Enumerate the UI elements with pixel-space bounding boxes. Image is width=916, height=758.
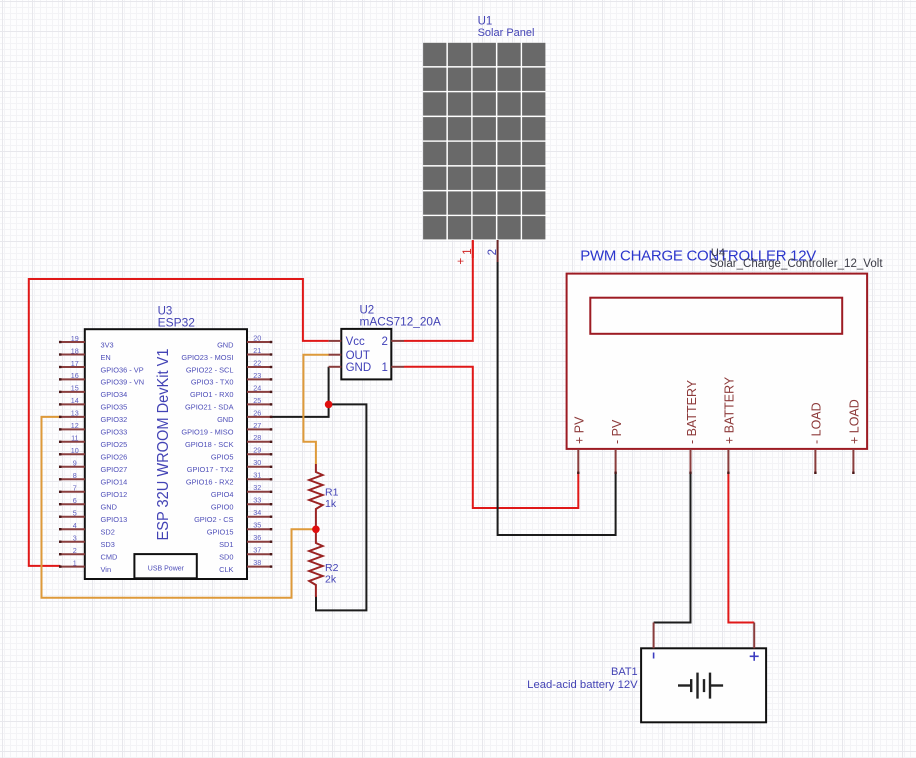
svg-text:GPIO18 - SCK: GPIO18 - SCK xyxy=(185,440,234,449)
svg-text:GPIO21 - SDA: GPIO21 - SDA xyxy=(185,403,234,412)
ESP32 pin 10 stub (GPIO26) xyxy=(59,446,127,462)
svg-text:31: 31 xyxy=(253,471,261,480)
svg-text:10: 10 xyxy=(71,446,79,455)
svg-text:7: 7 xyxy=(73,484,77,493)
svg-text:GPIO39 - VN: GPIO39 - VN xyxy=(101,378,145,387)
svg-text:GPIO2 - CS: GPIO2 - CS xyxy=(194,515,233,524)
svg-text:Vcc: Vcc xyxy=(346,336,365,348)
svg-text:CMD: CMD xyxy=(101,553,118,562)
charge controller U4 body xyxy=(567,274,868,449)
charge controller display rectangle xyxy=(590,298,842,334)
ESP32 pin 32 stub (GPIO4) xyxy=(211,483,272,499)
svg-text:U1: U1 xyxy=(478,16,493,28)
battery plus terminal mark xyxy=(750,652,759,661)
svg-text:32: 32 xyxy=(253,483,261,492)
svg-text:SD3: SD3 xyxy=(101,540,115,549)
svg-text:8: 8 xyxy=(73,471,77,480)
svg-text:1: 1 xyxy=(73,558,77,567)
controller pin stub tips xyxy=(578,472,853,474)
svg-text:GPIO13: GPIO13 xyxy=(101,515,128,524)
svg-text:21: 21 xyxy=(253,346,261,355)
ESP32 pin 26 stub (GND) xyxy=(217,408,272,424)
svg-text:18: 18 xyxy=(71,346,79,355)
svg-text:+ BATTERY: + BATTERY xyxy=(723,376,737,444)
ESP32 pin 7 stub (GPIO12) xyxy=(59,484,127,500)
controller pin stub -PV xyxy=(615,449,617,474)
ESP32 pin 5 stub (GPIO13) xyxy=(59,509,127,525)
ESP32 pin 15 stub (GPIO34) xyxy=(59,384,127,400)
ESP32 pin 12 stub (GPIO33) xyxy=(59,421,127,437)
ESP32 pin 35 stub (GPIO15) xyxy=(207,521,272,537)
svg-text:20: 20 xyxy=(253,333,261,342)
svg-text:GPIO5: GPIO5 xyxy=(211,453,234,462)
svg-text:USB Power: USB Power xyxy=(148,566,185,573)
svg-text:1: 1 xyxy=(462,248,474,254)
junction node U2-GND / ESP pin26 / R2 xyxy=(325,401,333,409)
wire black: junction to R2 bottom xyxy=(316,404,366,610)
svg-text:15: 15 xyxy=(71,384,79,393)
ESP32 pin 17 stub (GPIO36 - VP) xyxy=(59,359,144,375)
svg-text:GND: GND xyxy=(101,503,117,512)
battery cell symbol xyxy=(678,673,723,699)
U2 pin stub OUT xyxy=(329,354,342,356)
svg-text:6: 6 xyxy=(73,496,77,505)
svg-text:3: 3 xyxy=(73,534,77,543)
svg-text:36: 36 xyxy=(253,533,261,542)
svg-text:+: + xyxy=(456,258,468,265)
svg-text:1: 1 xyxy=(381,362,387,374)
battery pin stub plus xyxy=(753,623,755,649)
svg-text:16: 16 xyxy=(71,371,79,380)
USB Power box xyxy=(134,554,196,578)
svg-text:SD1: SD1 xyxy=(219,540,233,549)
battery pin stub minus xyxy=(653,623,655,649)
svg-text:19: 19 xyxy=(71,334,79,343)
battery BAT1 body xyxy=(641,648,766,722)
wire orange: ESP GPIO32 pin13 to R1-R2 junction xyxy=(42,417,316,598)
ESP32 pin 36 stub (SD1) xyxy=(219,533,272,549)
svg-text:GPIO36 - VP: GPIO36 - VP xyxy=(101,365,144,374)
ESP32 pin 34 stub (GPIO2 - CS) xyxy=(194,508,272,524)
resistor R2 xyxy=(309,529,322,597)
wire black: U2 GND down to junction then ESP pin26 xyxy=(272,367,329,417)
svg-text:+ LOAD: + LOAD xyxy=(848,399,862,444)
ESP32 pin 38 stub (CLK) xyxy=(219,558,272,574)
svg-text:28: 28 xyxy=(253,433,261,442)
svg-text:- LOAD: - LOAD xyxy=(810,402,824,444)
svg-text:3V3: 3V3 xyxy=(101,340,114,349)
svg-text:R1: R1 xyxy=(325,487,339,499)
wire black: panel pin2 to controller -PV xyxy=(498,262,616,535)
svg-text:GPIO23 - MOSI: GPIO23 - MOSI xyxy=(181,353,233,362)
svg-text:17: 17 xyxy=(71,359,79,368)
svg-text:23: 23 xyxy=(253,371,261,380)
svg-text:GPIO12: GPIO12 xyxy=(101,490,128,499)
svg-text:22: 22 xyxy=(253,358,261,367)
svg-text:GPIO27: GPIO27 xyxy=(101,465,128,474)
svg-text:CLK: CLK xyxy=(219,565,233,574)
svg-text:29: 29 xyxy=(253,446,261,455)
svg-text:GND: GND xyxy=(217,415,233,424)
solar panel pin stub 1 xyxy=(472,240,474,258)
ESP32 pin 4 stub (SD2) xyxy=(59,521,115,537)
svg-text:11: 11 xyxy=(71,434,78,443)
battery minus terminal mark xyxy=(653,653,655,659)
ESP32 pin 29 stub (GPIO5) xyxy=(211,446,272,462)
svg-text:9: 9 xyxy=(73,459,77,468)
svg-text:GPIO4: GPIO4 xyxy=(211,490,234,499)
current sensor U2 body xyxy=(341,329,391,380)
ESP32 pin 37 stub (SD0) xyxy=(219,546,272,562)
ESP32 pin 14 stub (GPIO35) xyxy=(59,396,127,412)
svg-text:2: 2 xyxy=(381,336,387,348)
resistor R1 label xyxy=(325,487,339,511)
wire red: ESP Vin loop to U2 Vcc xyxy=(29,279,329,566)
svg-text:GPIO0: GPIO0 xyxy=(211,503,234,512)
svg-text:GPIO25: GPIO25 xyxy=(101,440,128,449)
controller pin stub -BATTERY xyxy=(690,449,692,474)
ESP32 pin 8 stub (GPIO14) xyxy=(59,471,127,487)
svg-text:35: 35 xyxy=(253,521,261,530)
svg-text:2: 2 xyxy=(487,249,499,255)
svg-text:ESP32: ESP32 xyxy=(158,316,196,330)
controller pin stub +LOAD xyxy=(852,449,854,474)
svg-text:+ PV: + PV xyxy=(573,416,587,444)
svg-text:SD2: SD2 xyxy=(101,528,115,537)
svg-text:mACS712_20A: mACS712_20A xyxy=(360,315,441,329)
svg-text:12: 12 xyxy=(71,421,79,430)
U2 pin stub GND xyxy=(329,366,342,368)
U2 pin stub Vcc xyxy=(329,340,342,342)
ESP32 pin 23 stub (GPIO3 - TX0) xyxy=(191,371,272,387)
ESP32 pin 6 stub (GND) xyxy=(59,496,117,512)
svg-text:GPIO1 - RX0: GPIO1 - RX0 xyxy=(190,390,234,399)
svg-text:- BATTERY: - BATTERY xyxy=(685,379,699,444)
svg-text:- PV: - PV xyxy=(610,419,624,444)
svg-text:GPIO33: GPIO33 xyxy=(101,428,128,437)
controller pin stub +BATTERY xyxy=(727,449,729,474)
ESP32 pin 22 stub (GPIO22 - SCL) xyxy=(186,358,272,374)
svg-text:34: 34 xyxy=(253,508,261,517)
wire orange: U2 OUT to R1 top xyxy=(303,355,329,464)
controller pin stub -LOAD xyxy=(814,449,816,474)
svg-text:EN: EN xyxy=(101,353,111,362)
ESP32 pin 28 stub (GPIO18 - SCK) xyxy=(185,433,272,449)
svg-text:OUT: OUT xyxy=(346,350,370,362)
svg-text:2k: 2k xyxy=(325,574,337,586)
svg-text:GPIO22 - SCL: GPIO22 - SCL xyxy=(186,365,234,374)
svg-text:GND: GND xyxy=(346,362,372,374)
svg-text:14: 14 xyxy=(71,396,79,405)
svg-text:24: 24 xyxy=(253,383,261,392)
wire red: U2 pin1 to controller +PV xyxy=(404,367,578,508)
svg-text:33: 33 xyxy=(253,496,261,505)
svg-text:GND: GND xyxy=(217,340,233,349)
svg-text:GPIO35: GPIO35 xyxy=(101,403,128,412)
svg-text:R2: R2 xyxy=(325,562,339,574)
ESP32 pin 3 stub (SD3) xyxy=(59,534,115,550)
wire red: panel pin1 to U2 pin2 xyxy=(404,241,473,341)
wire black: controller -BATTERY to battery minus xyxy=(654,474,691,623)
ESP32 module U3 body xyxy=(85,329,247,579)
svg-text:GPIO16 - RX2: GPIO16 - RX2 xyxy=(186,478,234,487)
svg-text:GPIO14: GPIO14 xyxy=(101,478,128,487)
ESP32 pin 2 stub (CMD) xyxy=(59,546,117,562)
ESP32 pin 33 stub (GPIO0) xyxy=(211,496,272,512)
ESP32 pin 27 stub (GPIO19 - MISO) xyxy=(181,421,272,437)
svg-text:GPIO15: GPIO15 xyxy=(207,528,234,537)
svg-text:13: 13 xyxy=(71,409,79,418)
controller pin stub +PV xyxy=(577,449,579,474)
svg-text:38: 38 xyxy=(253,558,261,567)
ESP32 pin 13 stub (GPIO32) xyxy=(59,409,127,425)
ESP32 pin 30 stub (GPIO17 - TX2) xyxy=(187,458,272,474)
wire red: controller +BATTERY to battery plus xyxy=(728,474,754,623)
ESP32 pin 18 stub (EN) xyxy=(59,346,111,362)
ESP32 pin 24 stub (GPIO1 - RX0) xyxy=(190,383,272,399)
svg-text:25: 25 xyxy=(253,396,261,405)
svg-text:Solar Panel: Solar Panel xyxy=(478,27,535,39)
svg-text:30: 30 xyxy=(253,458,261,467)
U2 pin stub 2 xyxy=(391,340,404,342)
ESP32 pin 19 stub (3V3) xyxy=(59,334,114,350)
svg-text:GPIO3 - TX0: GPIO3 - TX0 xyxy=(191,378,234,387)
svg-text:27: 27 xyxy=(253,421,261,430)
resistor R2 label xyxy=(325,562,339,586)
svg-text:Lead-acid battery 12V: Lead-acid battery 12V xyxy=(527,679,638,691)
svg-text:Vin: Vin xyxy=(101,565,112,574)
svg-text:5: 5 xyxy=(73,509,77,518)
resistor R1 xyxy=(309,464,322,529)
svg-text:GPIO34: GPIO34 xyxy=(101,390,128,399)
junction node R1 / R2 / GPIO32 xyxy=(312,526,320,534)
svg-text:Solar_Charge_Controller_12_Vol: Solar_Charge_Controller_12_Volt xyxy=(710,258,884,270)
ESP32 pin 11 stub (GPIO25) xyxy=(59,434,127,450)
solar panel pin stub 2 xyxy=(497,240,499,262)
svg-text:GPIO19 - MISO: GPIO19 - MISO xyxy=(181,428,233,437)
svg-text:ESP 32U WROOM DevKit V1: ESP 32U WROOM DevKit V1 xyxy=(155,349,172,541)
solar panel U1 cell grid xyxy=(423,43,546,241)
U2 pin stub 1 xyxy=(391,366,404,368)
svg-text:1k: 1k xyxy=(325,498,337,510)
svg-text:SD0: SD0 xyxy=(219,553,233,562)
ESP32 pin 25 stub (GPIO21 - SDA) xyxy=(185,396,272,412)
svg-text:GPIO17 - TX2: GPIO17 - TX2 xyxy=(187,465,234,474)
ESP32 pin 16 stub (GPIO39 - VN) xyxy=(59,371,144,387)
svg-text:GPIO32: GPIO32 xyxy=(101,415,128,424)
ESP32 pin 9 stub (GPIO27) xyxy=(59,459,127,475)
svg-text:2: 2 xyxy=(73,546,77,555)
svg-text:BAT1: BAT1 xyxy=(611,666,638,678)
svg-text:26: 26 xyxy=(253,408,261,417)
ESP32 pin 1 stub (Vin) xyxy=(59,558,111,574)
svg-text:37: 37 xyxy=(253,546,261,555)
svg-text:4: 4 xyxy=(73,521,77,530)
ESP32 pin 31 stub (GPIO16 - RX2) xyxy=(186,471,272,487)
svg-text:GPIO26: GPIO26 xyxy=(101,453,128,462)
ESP32 pin 21 stub (GPIO23 - MOSI) xyxy=(181,346,272,362)
ESP32 pin 20 stub (GND) xyxy=(217,333,272,349)
